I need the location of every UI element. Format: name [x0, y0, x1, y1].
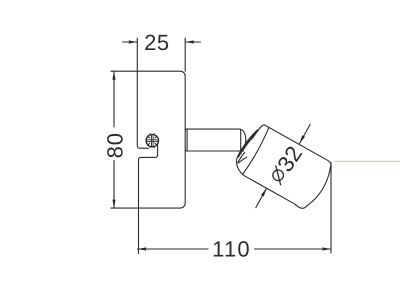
25-dim right extension line — [184, 38, 186, 71]
dimension Ø32: arrows — [300, 124, 311, 143]
red reference line — [335, 160, 400, 162]
plate left edge upper + 25-dim left extension + joggle ledge — [137, 38, 148, 148]
hinge fork leaf side 1 — [238, 130, 258, 157]
hinge fork lower prong line 1 — [238, 153, 245, 163]
lamp head cap seam — [243, 128, 271, 176]
swivel ball — [240, 129, 246, 150]
wire arm top line — [185, 128, 240, 130]
dimension 80: line and arrows — [113, 71, 115, 127]
wire arm bottom line — [185, 150, 243, 152]
screw head — [146, 134, 158, 146]
diameter symbol of Ø32 — [269, 166, 288, 185]
hinge fork leaf hatch — [239, 132, 256, 154]
svg-text:80: 80 — [102, 132, 127, 158]
dimension 110: line and arrows — [138, 248, 209, 250]
arm end cap — [239, 129, 242, 151]
plate left edge lower + joggle + 110-dim left extension — [139, 145, 158, 254]
dim text 80 — [102, 132, 127, 158]
hinge fork leaf side 2 — [238, 130, 258, 157]
dim text 32 (of Ø32) — [272, 142, 307, 177]
arm flange at wall plate — [186, 129, 188, 151]
dimension 25: line stubs and arrows — [123, 41, 138, 43]
hinge fork lower prong line 2 — [238, 157, 247, 163]
lamp head body — [231, 121, 336, 213]
mounting plate outline (top, right, bottom with 80-dim extension lines) — [111, 71, 185, 208]
svg-text:110: 110 — [212, 237, 251, 262]
svg-text:25: 25 — [144, 30, 169, 55]
110-dim right extension line — [330, 163, 332, 254]
